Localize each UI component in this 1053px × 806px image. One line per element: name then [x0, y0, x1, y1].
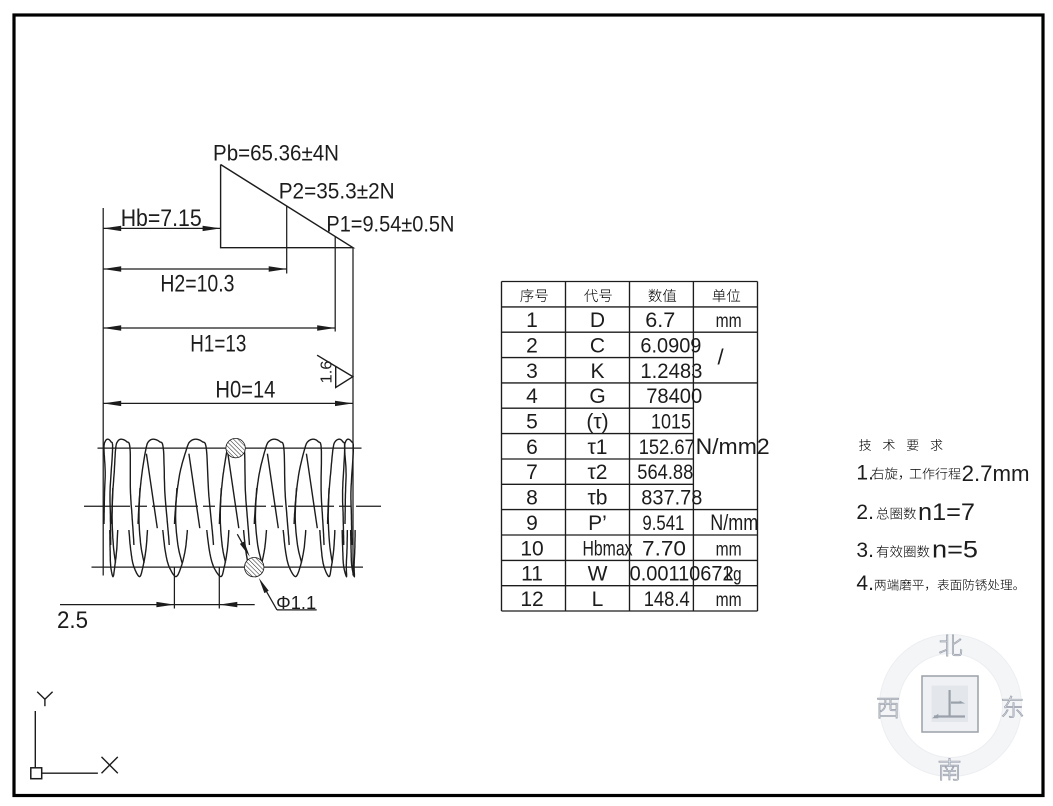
svg-text:2.: 2.: [856, 501, 874, 524]
svg-text:W: W: [588, 563, 608, 586]
svg-text:τ1: τ1: [588, 436, 608, 459]
svg-text:K: K: [590, 360, 604, 383]
svg-text:L: L: [592, 588, 604, 611]
compass ring: [880, 635, 1022, 777]
compass up glyph: [934, 690, 965, 717]
dimension H1=13: [103, 327, 335, 329]
svg-text:78400: 78400: [646, 385, 702, 408]
svg-text:7: 7: [526, 461, 538, 484]
compass center square: [922, 676, 978, 732]
table header: [520, 289, 533, 302]
svg-text:0.00110672: 0.00110672: [630, 563, 734, 586]
pitch dimension 2.5: [60, 604, 255, 606]
svg-text:6.0909: 6.0909: [640, 335, 701, 358]
svg-text:Pb=65.36±4N: Pb=65.36±4N: [213, 141, 339, 166]
svg-text:9.541: 9.541: [642, 512, 684, 535]
svg-text:kg: kg: [726, 565, 742, 586]
svg-text:1.: 1.: [856, 462, 874, 485]
svg-text:4.: 4.: [856, 572, 874, 595]
svg-text:6.7: 6.7: [645, 309, 675, 332]
dimension H2=10.3: [103, 268, 287, 270]
compass west char: [878, 698, 899, 718]
spring wire helix: [104, 439, 113, 545]
svg-text:C: C: [590, 335, 605, 358]
svg-text:148.4: 148.4: [644, 588, 690, 611]
svg-text:P1=9.54±0.5N: P1=9.54±0.5N: [326, 211, 454, 236]
UCS Y axis: [37, 692, 52, 707]
svg-text:837.78: 837.78: [641, 487, 702, 510]
svg-text:mm: mm: [716, 590, 742, 611]
svg-text:n1=7: n1=7: [918, 499, 975, 526]
svg-text:2.5: 2.5: [57, 607, 88, 634]
svg-text:564.88: 564.88: [637, 461, 693, 484]
svg-text:H0=14: H0=14: [215, 376, 275, 403]
spring center line: [84, 505, 381, 507]
svg-text:(τ): (τ): [586, 411, 608, 434]
svg-text:mm: mm: [716, 311, 742, 332]
leader Phi 1.1: [237, 534, 247, 552]
svg-text:11: 11: [521, 563, 543, 586]
svg-text:12: 12: [520, 588, 543, 611]
compass south char: [939, 758, 960, 780]
svg-text:τ2: τ2: [588, 461, 608, 484]
svg-text:3: 3: [526, 360, 538, 383]
wire section circle top: [226, 439, 245, 458]
dimension H0=14: [103, 402, 353, 404]
pitch extension line b: [218, 567, 220, 608]
compass east char: [1002, 696, 1022, 718]
svg-text:Hbmax: Hbmax: [583, 537, 633, 560]
svg-text:1015: 1015: [651, 411, 691, 434]
UCS X glyph: [102, 757, 118, 773]
extension line left (spring left end): [102, 208, 104, 576]
svg-text:N/mm2: N/mm2: [696, 434, 770, 459]
svg-text:P2=35.3±2N: P2=35.3±2N: [279, 179, 395, 204]
extension line P1: [334, 237, 336, 332]
svg-text:4: 4: [526, 385, 538, 408]
svg-text:G: G: [589, 385, 605, 408]
svg-text:8: 8: [526, 487, 538, 510]
svg-text:n=5: n=5: [932, 537, 978, 564]
pitch extension line a: [173, 567, 175, 608]
svg-text:5: 5: [526, 411, 538, 434]
svg-text:Φ1.1: Φ1.1: [276, 593, 316, 613]
svg-text:3.: 3.: [856, 539, 874, 562]
svg-text:9: 9: [526, 512, 538, 535]
surface roughness symbol 1.6: [317, 355, 353, 387]
svg-text:7.70: 7.70: [642, 537, 686, 560]
wire section circle bottom: [245, 558, 264, 577]
svg-text:1: 1: [526, 309, 538, 332]
svg-text:H2=10.3: H2=10.3: [160, 271, 234, 298]
load diagram triangle: [221, 165, 353, 248]
svg-text:P’: P’: [588, 512, 607, 535]
spring mean-diameter bottom line: [92, 566, 364, 568]
UCS origin box: [31, 768, 42, 779]
svg-text:H1=13: H1=13: [190, 331, 246, 358]
extension line P2: [286, 206, 288, 274]
svg-text:1.2483: 1.2483: [640, 360, 702, 383]
svg-text:D: D: [590, 309, 605, 332]
dimension Hb=7.15: [103, 227, 220, 229]
tech requirements title: [859, 439, 871, 451]
svg-text:N/mm: N/mm: [710, 510, 758, 535]
table grid: [501, 282, 503, 612]
svg-text:mm: mm: [716, 539, 742, 560]
svg-text:2.7mm: 2.7mm: [962, 461, 1030, 486]
svg-text:10: 10: [520, 537, 543, 560]
svg-text:/: /: [718, 345, 725, 370]
svg-text:152.67: 152.67: [639, 436, 695, 459]
spring mean-diameter top line: [98, 447, 362, 449]
svg-text:Hb=7.15: Hb=7.15: [121, 205, 202, 232]
compass north char: [940, 635, 962, 656]
extension line right (spring right end): [352, 248, 354, 576]
svg-text:6: 6: [526, 436, 538, 459]
svg-text:1.6: 1.6: [319, 360, 336, 383]
svg-text:2: 2: [526, 335, 538, 358]
svg-text:τb: τb: [588, 487, 608, 510]
